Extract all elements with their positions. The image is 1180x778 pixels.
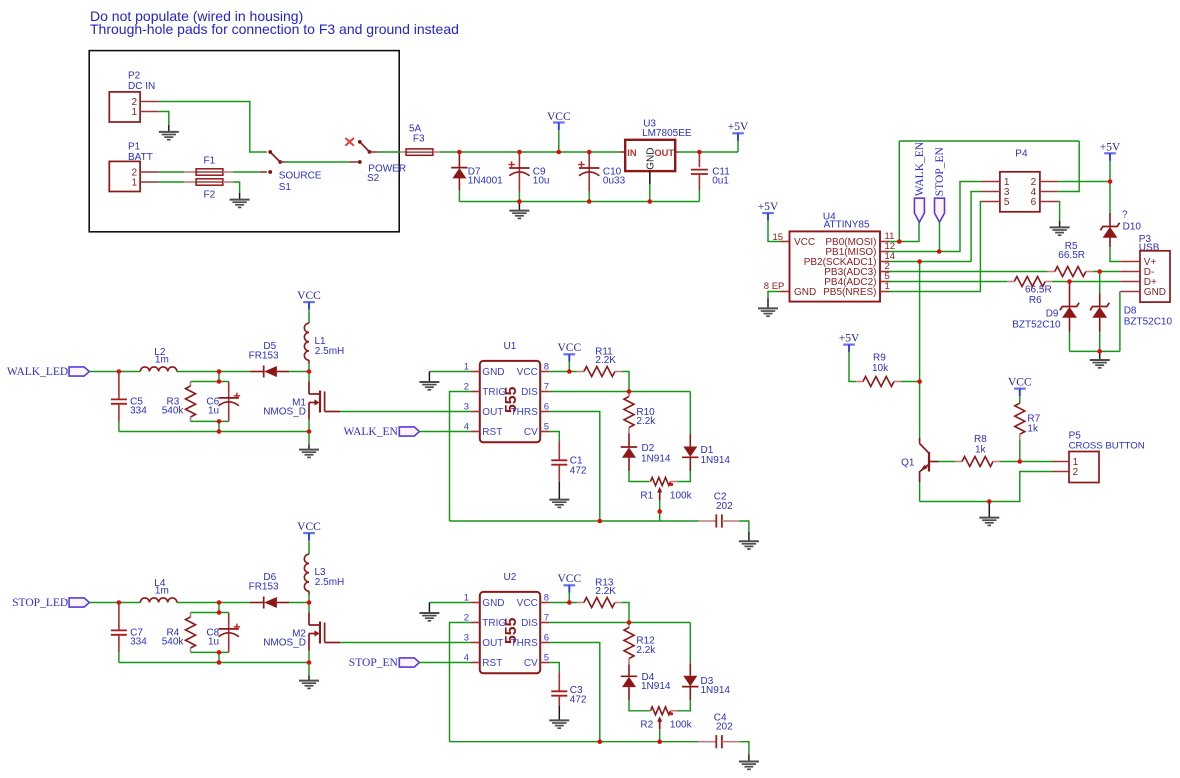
capacitor C8 lead — [228, 613, 230, 653]
mosfet M1 gate lead — [325, 411, 340, 413]
U1 pin 7 lead (right) — [540, 391, 549, 393]
wire D4 to pot — [629, 700, 649, 711]
svg-text:R9: R9 — [873, 353, 886, 364]
resistor R4 bottom lead — [190, 648, 192, 652]
wire down to RC block — [218, 372, 220, 382]
U2 pin 2 lead (left) — [470, 622, 479, 624]
svg-text:6: 6 — [544, 401, 549, 412]
wire +5V to P4 node — [1109, 162, 1111, 182]
potentiometer R2 terminal dot — [670, 712, 673, 715]
svg-text:S1: S1 — [279, 182, 292, 193]
connector P3 USB body — [1140, 251, 1170, 302]
fuse F1 right lead — [223, 171, 233, 173]
fuse F2 right lead — [223, 181, 233, 183]
wire U3 GND to bottom rail — [649, 184, 651, 202]
svg-text:202: 202 — [716, 721, 733, 732]
net flag WALK_LED — [69, 367, 89, 376]
power flag VCC (main) — [553, 121, 565, 123]
capacitor C7 bottom lead — [118, 635, 120, 652]
bottom ground rail — [459, 201, 699, 203]
RC block top wire — [191, 612, 229, 614]
resistor R9 left lead — [856, 381, 863, 383]
svg-text:RST: RST — [482, 658, 502, 669]
diode D2 anode lead — [628, 434, 630, 448]
wire main +V rail to C9 — [459, 151, 519, 153]
diode D9 anode lead — [1069, 318, 1071, 332]
mosfet M1 NMOS_D body — [309, 391, 325, 420]
U1 TRIG loop wire — [450, 392, 471, 522]
wire C9 to bottom rail — [518, 192, 520, 202]
wire VCC to L1 — [308, 311, 310, 323]
svg-text:100k: 100k — [670, 490, 693, 501]
svg-text:D8: D8 — [1124, 306, 1137, 317]
junction RC block bottom — [217, 650, 222, 655]
diode D1 1N914 — [683, 447, 697, 457]
svg-text:THRS: THRS — [511, 407, 539, 418]
diode D10 anode lead — [1109, 238, 1111, 247]
connector P5 body — [1069, 452, 1099, 483]
junction rail below RC — [217, 429, 222, 434]
svg-text:6: 6 — [544, 632, 549, 643]
svg-text:FR153: FR153 — [249, 351, 279, 362]
wire R9 to collector node — [901, 381, 920, 383]
wire base to R8 — [939, 461, 956, 463]
IC U1 555 body — [480, 361, 540, 442]
junction at C5 — [117, 369, 122, 374]
P1 pin 1 lead — [140, 181, 159, 183]
U4 pin lead PB4(ADC2) — [880, 281, 890, 283]
resistor R11 left lead — [577, 371, 584, 373]
C10 plus mark — [578, 164, 584, 166]
ground below mosfet — [308, 676, 310, 681]
junction C10 top — [587, 150, 592, 155]
wire WALK_EN to RST — [419, 431, 470, 433]
mosfet M2 NMOS_D body — [309, 622, 325, 651]
junction PB0 node — [897, 239, 902, 244]
svg-text:2.2k: 2.2k — [636, 645, 656, 656]
junction C9 top — [517, 150, 522, 155]
svg-text:BZT52C10: BZT52C10 — [1012, 320, 1061, 331]
svg-text:PB5(NRES): PB5(NRES) — [823, 287, 876, 298]
resistor R4 540k — [186, 617, 196, 648]
net flag STOP_EN — [399, 658, 419, 667]
U4 GND pin lead — [781, 291, 790, 293]
svg-text:VCC: VCC — [794, 237, 815, 248]
junction wiper — [657, 739, 662, 744]
svg-text:2.2k: 2.2k — [636, 416, 656, 427]
svg-text:VCC: VCC — [517, 367, 538, 378]
junction D- node — [1097, 269, 1102, 274]
transistor Q1 emitter diagonal — [920, 464, 929, 471]
svg-text:3: 3 — [464, 632, 469, 643]
svg-text:F1: F1 — [204, 156, 216, 167]
svg-text:0u1: 0u1 — [712, 176, 729, 187]
svg-text:U1: U1 — [504, 341, 517, 352]
svg-text:2.2K: 2.2K — [595, 355, 616, 366]
capacitor C1 bottom lead — [558, 465, 560, 482]
svg-text:8: 8 — [544, 592, 549, 603]
wire D2 to pot — [629, 471, 649, 482]
capacitor C4 left lead — [699, 741, 717, 743]
U2 pin 7 lead (right) — [540, 622, 549, 624]
fuse F1 — [196, 169, 223, 175]
ground below C3 — [558, 706, 560, 720]
wire PB5 row — [890, 202, 982, 292]
U3 IN pin lead — [619, 151, 625, 153]
wire F2 to ground — [233, 182, 240, 193]
diode D2 1N914 — [621, 446, 637, 448]
ground after C4 — [748, 754, 750, 761]
potentiometer R2 wiper arrow — [657, 716, 662, 722]
svg-text:P1: P1 — [128, 142, 141, 153]
svg-text:1m: 1m — [155, 586, 169, 597]
U1 OUT wire to gate — [340, 411, 470, 413]
wire C4 to ground — [739, 742, 749, 755]
enclosure box (do-not-populate housing) — [89, 51, 399, 232]
wire drain node to mosfet — [308, 372, 310, 382]
inductor L1 2.5mH — [304, 323, 309, 360]
ground below P2 — [168, 125, 170, 132]
U4 VCC pin lead — [781, 241, 790, 243]
fuse F3 left lead — [400, 151, 406, 153]
svg-text:1m: 1m — [155, 355, 169, 366]
U1 pin 8 lead (right) — [540, 371, 549, 373]
wire mosfet source stub to ground — [308, 432, 310, 445]
capacitor C7 334 — [111, 629, 127, 631]
svg-text:2.5mH: 2.5mH — [315, 346, 344, 357]
svg-text:2.5mH: 2.5mH — [315, 577, 344, 588]
U2 GND pin wire to ground — [429, 602, 470, 604]
P3 V+ pin lead — [1120, 261, 1140, 263]
svg-text:TRIG: TRIG — [482, 387, 506, 398]
C9 plus mark — [508, 164, 514, 166]
junction filter node — [217, 369, 222, 374]
resistor R5 right lead — [1086, 271, 1093, 273]
wire VCC stem at U1 — [568, 361, 570, 372]
svg-text:OUT: OUT — [482, 638, 503, 649]
wire node down to Q1 collector — [919, 382, 921, 439]
power flag +5V at USB — [1104, 152, 1116, 154]
svg-text:8 EP: 8 EP — [764, 281, 785, 292]
junction THRS on rail — [598, 739, 603, 744]
svg-text:F2: F2 — [204, 190, 216, 201]
switch S1 lower contact — [268, 170, 272, 174]
svg-text:+5V: +5V — [728, 121, 749, 133]
U4 pin lead PB3(ADC3) — [880, 271, 890, 273]
S2 throw lead — [350, 161, 358, 163]
capacitor C5 334 — [111, 398, 127, 400]
resistor R3 540k — [186, 386, 196, 417]
inductor L3 2.5mH — [304, 554, 309, 591]
diode D9 cathode lead — [1069, 282, 1071, 307]
power flag VCC at R7 — [1014, 388, 1026, 390]
svg-text:NMOS_D: NMOS_D — [263, 407, 306, 418]
ground below power rail — [518, 202, 520, 211]
wire R13 to DIS node — [622, 603, 629, 623]
resistor R6 66.5R — [1014, 277, 1045, 287]
bottom rail of U1 block — [450, 520, 699, 522]
P5 pin 1 lead — [1052, 461, 1069, 463]
svg-text:R1: R1 — [640, 490, 653, 501]
diode D6 left lead — [250, 602, 264, 604]
capacitor C9 lead — [518, 152, 520, 192]
junction RC block top — [217, 610, 222, 615]
svg-text:Through-hole pads for connecti: Through-hole pads for connection to F3 a… — [90, 21, 459, 37]
fuse F2 left lead — [184, 181, 196, 183]
U1 GND pin wire to ground — [429, 371, 470, 373]
capacitor C7 top lead — [118, 603, 120, 631]
wire +5V to U4 VCC — [768, 220, 781, 241]
U2 pin 8 lead (right) — [540, 602, 549, 604]
net flag WALK_EN — [399, 427, 419, 436]
wire P2.2 to S1 upper throw — [159, 102, 267, 153]
junction DIS node — [627, 389, 632, 394]
svg-text:GND: GND — [482, 598, 504, 609]
capacitor C10 lead — [588, 152, 590, 192]
svg-text:3: 3 — [464, 401, 469, 412]
inductor L3 bottom lead — [308, 591, 310, 594]
capacitor C2 right lead — [722, 520, 739, 522]
inductor L2 1m — [140, 367, 177, 372]
svg-text:202: 202 — [716, 501, 733, 512]
junction RC block top — [217, 379, 222, 384]
wire +5V to R9 — [849, 352, 856, 382]
capacitor C2 202 — [715, 514, 717, 527]
svg-text:4: 4 — [464, 421, 469, 432]
svg-text:STOP_EN: STOP_EN — [934, 147, 946, 197]
wire P1.1 to F2 — [159, 181, 185, 183]
wire source to ground rail — [308, 420, 310, 432]
svg-text:+5V: +5V — [758, 201, 779, 213]
svg-text:7: 7 — [544, 381, 549, 392]
node: D7 junction — [457, 150, 462, 155]
svg-text:WALK_LED: WALK_LED — [7, 366, 68, 378]
svg-text:OUT: OUT — [482, 407, 503, 418]
svg-text:2: 2 — [464, 612, 469, 623]
capacitor C5 top lead — [118, 372, 120, 400]
P1 pin 2 lead — [140, 171, 159, 173]
wire PB2 row — [890, 261, 972, 263]
U2 DIS wire — [549, 622, 690, 624]
resistor R13 left lead — [577, 602, 584, 604]
switch S2 lever — [361, 143, 370, 152]
diode D3 cathode lead — [689, 663, 691, 676]
wire L2 to filter node — [177, 371, 250, 373]
LED section ground rail — [119, 431, 309, 433]
capacitor C1 472 — [551, 459, 567, 461]
diode D9 BZT52C10 (zener) — [1060, 303, 1079, 311]
junction rail below RC — [217, 660, 222, 665]
junction ground node — [987, 499, 992, 504]
svg-text:D9: D9 — [1046, 309, 1059, 320]
wire R11 to DIS node — [622, 372, 629, 392]
capacitor C3 bottom lead — [558, 696, 560, 706]
svg-text:1N914: 1N914 — [641, 453, 671, 464]
junction ground rail at C10 — [587, 199, 592, 204]
U2 pin 6 lead (right) — [540, 642, 549, 644]
wire PB4 row to R6 — [890, 281, 1008, 283]
junction D+ node — [1067, 279, 1072, 284]
svg-text:CV: CV — [524, 658, 538, 669]
capacitor C6 lead — [228, 382, 230, 422]
svg-text:2: 2 — [1073, 467, 1079, 478]
power flag VCC at U2 — [564, 584, 576, 586]
resistor R10 bottom lead — [628, 428, 630, 434]
U2 pin 1 lead (left) — [470, 602, 479, 604]
U3 OUT pin lead — [675, 151, 678, 153]
junction PB1 node — [937, 249, 942, 254]
svg-text:DIS: DIS — [521, 387, 538, 398]
svg-text:5: 5 — [544, 652, 549, 663]
wire C7 to ground rail — [118, 652, 120, 663]
ground below zener rail — [1099, 351, 1101, 359]
transistor Q1 base bar — [928, 452, 930, 472]
capacitor C1 top lead — [558, 441, 560, 459]
junction filter node — [217, 600, 222, 605]
switch S1 SOURCE upper contact — [268, 150, 272, 154]
diode D7 1N4001 — [451, 167, 467, 169]
potentiometer R1 100k — [651, 478, 671, 486]
svg-text:R8: R8 — [974, 434, 987, 445]
U2 THRS wire — [549, 643, 599, 742]
resistor R11 right lead — [615, 371, 622, 373]
svg-text:R6: R6 — [1029, 295, 1042, 306]
power flag VCC above L1 — [303, 301, 315, 303]
diode D5 left lead — [250, 371, 264, 373]
resistor R3 bottom lead — [190, 417, 192, 421]
U1 pin 1 lead (left) — [470, 371, 479, 373]
wire D8 to zener rail — [1099, 332, 1101, 352]
fuse F1 left lead — [184, 171, 196, 173]
connector P4 body — [1000, 172, 1040, 212]
mosfet M1 source arrow — [314, 399, 319, 405]
net flag WALK_EN (vertical) — [914, 198, 924, 222]
wire D1 to pot — [678, 471, 691, 482]
wire P3 GND down to rail — [1119, 292, 1121, 352]
resistor R7 1k — [1015, 403, 1025, 434]
svg-text:VCC: VCC — [297, 521, 321, 533]
svg-text:TRIG: TRIG — [482, 618, 506, 629]
capacitor C4 202 — [715, 735, 717, 748]
svg-text:472: 472 — [570, 695, 587, 706]
diode D3 top wire — [689, 623, 691, 664]
wire Q1 emitter down — [919, 482, 921, 502]
wire D- node down to D8 — [1099, 272, 1101, 294]
svg-text:VCC: VCC — [297, 290, 321, 302]
U1 THRS wire — [549, 412, 599, 522]
wire down to RC block — [218, 603, 220, 613]
mosfet M2 source arrow — [314, 630, 319, 636]
diode D1 anode lead — [689, 457, 691, 471]
capacitor C2 left lead — [699, 520, 717, 522]
svg-text:R2: R2 — [640, 720, 653, 731]
svg-text:GND: GND — [646, 148, 657, 170]
wire S1 pole to S2 throw — [285, 161, 350, 163]
svg-text:VCC: VCC — [557, 342, 581, 354]
resistor R6 left lead — [1007, 281, 1014, 283]
svg-text:CV: CV — [524, 427, 538, 438]
wire D5 to drain node — [289, 371, 309, 373]
wire PB1 row — [890, 182, 982, 252]
wire top rail down to P4 pin 4 — [1058, 141, 1079, 192]
capacitor C9 10u (polarized) — [509, 167, 529, 169]
potentiometer R1 left lead — [649, 481, 650, 483]
svg-text:2: 2 — [464, 381, 469, 392]
wire P2.1 to ground — [159, 112, 169, 125]
U1 CV wire — [549, 432, 559, 442]
P4 pin 6 lead — [1040, 201, 1059, 203]
svg-text:P4: P4 — [1015, 149, 1028, 160]
wire C10 to bottom rail — [588, 192, 590, 202]
fuse F3 — [406, 149, 433, 155]
diode D1 top wire — [689, 392, 691, 435]
wire C2 to ground — [739, 521, 749, 532]
connector P2 DC IN — [109, 92, 140, 122]
resistor R12 bottom lead — [628, 659, 630, 665]
RC block top wire — [191, 381, 229, 383]
svg-text:ATTINY85: ATTINY85 — [824, 220, 870, 231]
P3 D- pin lead — [1120, 271, 1140, 273]
diode D8 anode lead — [1099, 318, 1101, 332]
resistor R8 1k — [962, 457, 993, 467]
U1 pin 6 lead (right) — [540, 411, 549, 413]
svg-text:1u: 1u — [208, 637, 219, 648]
junction drain node — [307, 600, 312, 605]
switch S1 pole contact — [278, 160, 282, 164]
U3 GND pin stem — [649, 171, 651, 184]
ground at U2 pin 1 — [428, 603, 430, 613]
svg-text:DIS: DIS — [521, 618, 538, 629]
U4 pin lead PB2(SCKADC1) — [880, 261, 890, 263]
svg-text:1: 1 — [464, 361, 469, 372]
junction zener rail — [1097, 349, 1102, 354]
svg-text:CROSS BUTTON: CROSS BUTTON — [1069, 440, 1145, 451]
connector P1 BATT — [109, 161, 140, 191]
switch S1 pole lead — [280, 161, 285, 163]
svg-text:BZT52C10: BZT52C10 — [1124, 317, 1173, 328]
svg-text:P2: P2 — [128, 71, 141, 82]
capacitor C4 right lead — [722, 741, 739, 743]
U4 pin lead PB0(MOSI) — [880, 241, 890, 243]
svg-text:LM7805EE: LM7805EE — [642, 128, 692, 139]
resistor R12 — [624, 628, 634, 659]
svg-text:1: 1 — [131, 107, 137, 118]
potentiometer R1 terminal dot — [670, 483, 673, 486]
capacitor C6 1u (polarized) — [219, 397, 239, 399]
wire RC block to ground rail — [218, 652, 220, 662]
diode D5 FR153 — [263, 366, 265, 378]
S1 lower throw lead — [260, 171, 267, 173]
wire L4 to filter node — [177, 602, 250, 604]
P2 pin 2 lead — [140, 101, 159, 103]
wire L1 to drain node — [308, 364, 310, 372]
svg-text:1: 1 — [885, 281, 890, 292]
svg-text:F3: F3 — [413, 134, 425, 145]
wire D9 to zener rail — [1069, 332, 1071, 352]
fuse F2 — [196, 179, 223, 185]
wire VCC to U2 pin 8 — [549, 602, 577, 604]
svg-text:66.5R: 66.5R — [1058, 250, 1085, 261]
svg-text:SOURCE: SOURCE — [279, 171, 322, 182]
transistor Q1 base lead — [929, 461, 939, 463]
U2 CV wire — [549, 663, 559, 673]
svg-text:5: 5 — [1004, 197, 1010, 208]
svg-text:1: 1 — [131, 178, 137, 189]
junction DIS node — [627, 620, 632, 625]
svg-text:DC IN: DC IN — [128, 81, 155, 92]
mosfet M1 drain lead — [308, 382, 310, 395]
wire D7 to bottom rail — [458, 191, 460, 202]
